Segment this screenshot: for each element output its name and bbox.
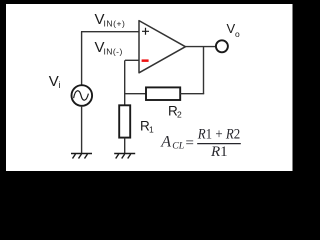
label V_o [227,21,241,39]
label V_IN(-) [95,39,123,56]
svg-text:2: 2 [177,110,182,120]
svg-text:R1 + R2: R1 + R2 [197,127,240,143]
svg-text:IN(+): IN(+) [104,19,126,29]
op-amp + marker [142,28,149,35]
svg-text:CL: CL [172,141,184,152]
wire inverting input [125,59,139,61]
label V_i [49,73,61,90]
op-amp U1 [139,21,185,73]
svg-text:o: o [235,29,240,39]
source V_i [72,85,93,106]
wire feedback horizontal left [125,93,146,95]
svg-text:V: V [49,73,59,90]
wire feedback horizontal right [180,93,204,95]
svg-text:IN(-): IN(-) [104,47,123,57]
wire top (+ input) [81,31,140,33]
resistor R1 [119,105,130,137]
svg-text:i: i [59,80,61,90]
svg-text:A: A [160,134,171,151]
wire left vertical from + node to source [81,32,83,85]
wire feedback vertical right [203,47,205,94]
svg-text:R1: R1 [210,144,228,160]
ground under source [71,154,92,159]
label R1 [140,118,154,134]
resistor R2 [146,87,180,100]
terminal V_o [216,40,228,52]
label V_IN(+) [95,11,126,28]
formula A_CL = (R1+R2)/R1 [160,127,241,160]
wire source to ground [81,106,83,154]
wire feedback vertical [124,60,126,105]
ground under R1 [114,154,135,159]
wire output [185,46,215,48]
svg-text:=: = [185,136,195,152]
op-amp - marker (red) [142,59,149,62]
wire R1 to ground [124,138,126,154]
svg-text:1: 1 [149,125,154,135]
label R2 [168,103,182,119]
